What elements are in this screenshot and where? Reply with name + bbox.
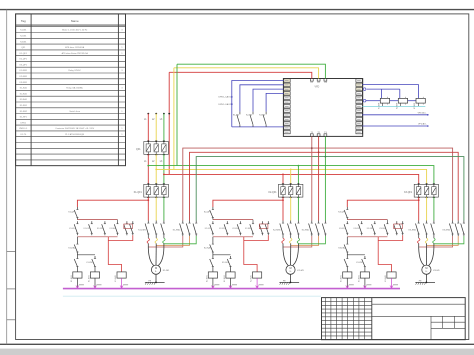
contact K2-SA1 xyxy=(212,254,214,256)
VFD output wire T2 xyxy=(318,136,320,220)
svg-text:K3-KD2: K3-KD2 xyxy=(354,228,361,230)
motor K3-M1 ground PE xyxy=(425,274,427,282)
svg-text:K3-QF1: K3-QF1 xyxy=(404,192,413,194)
svg-text:DRV1-CAO1: DRV1-CAO1 xyxy=(219,96,232,99)
contact K1-SA1 xyxy=(76,254,78,256)
coil terminal labels xyxy=(349,284,354,286)
red wire pushbutton drop xyxy=(378,235,403,240)
wire VFD DO1 blue xyxy=(362,85,418,99)
contactor K3-KM2 contacts xyxy=(452,221,454,224)
svg-text:K1-SB1: K1-SB1 xyxy=(109,228,116,230)
wire L3 top bus green xyxy=(177,64,325,78)
svg-text:K2-QF1: K2-QF1 xyxy=(268,192,277,194)
svg-text:M: M xyxy=(155,267,157,270)
pushbutton K3-SB2 xyxy=(396,221,398,224)
svg-text:K1-KD2: K1-KD2 xyxy=(84,228,91,230)
VFD output bus W2 red xyxy=(190,152,459,220)
overload relay K3-KK1 xyxy=(418,236,420,238)
motor K1-M1 xyxy=(151,265,160,274)
supply wire L2 xyxy=(155,114,157,142)
coil K3-KA1 xyxy=(387,272,396,278)
svg-text:K1-KA1: K1-KA1 xyxy=(20,87,28,90)
branch 2 feeder drops from buses xyxy=(282,174,284,184)
QF1 output wire L2 xyxy=(155,154,157,184)
svg-text:K2-KM2: K2-KM2 xyxy=(302,229,310,231)
svg-text:K3-QF1: K3-QF1 xyxy=(338,212,346,214)
contact K2-M2 xyxy=(252,112,254,115)
pin negation circles xyxy=(363,88,366,91)
sheet bottom shadow strip xyxy=(0,349,474,355)
control feed wire branch 3 xyxy=(347,200,418,207)
contactor K1-KM2 contacts xyxy=(182,221,184,224)
relay K2-MF xyxy=(398,98,407,103)
relay K1-MF xyxy=(380,98,389,103)
selector contact K1-KA1 xyxy=(76,237,78,242)
VFD output wire T3 xyxy=(324,136,326,220)
svg-text:K1-QF1: K1-QF1 xyxy=(20,53,28,55)
distribution bus L3 green xyxy=(148,166,434,185)
contact K3-SA1 xyxy=(346,254,348,256)
svg-text:K1-KM2: K1-KM2 xyxy=(173,229,181,231)
VFD output bus W1 dark red xyxy=(183,148,453,220)
wire VFD DI common blue xyxy=(232,81,284,127)
contactor K2-KM2 contacts xyxy=(311,221,313,224)
wire VFD AO- blue xyxy=(362,125,428,127)
junction dots T wires to side buses xyxy=(311,147,313,149)
motor K2-M1 ground PE xyxy=(290,274,292,282)
QF1 output wire L1 xyxy=(147,154,149,184)
coil branch wire xyxy=(347,254,365,256)
svg-text:Relay GA 220VAC: Relay GA 220VAC xyxy=(66,87,83,90)
svg-text:VFD AO+: VFD AO+ xyxy=(418,111,428,114)
aux contact K3-QF1 xyxy=(346,207,348,210)
VFD left pin terminals xyxy=(284,79,290,134)
svg-text:Switch fuse: Switch fuse xyxy=(69,110,80,113)
control feed wire branch 2 xyxy=(213,200,283,207)
svg-text:QF1: QF1 xyxy=(136,149,141,151)
VFD bottom pins T1 T2 T3 xyxy=(310,134,326,137)
svg-text:K3-KM1: K3-KM1 xyxy=(409,229,417,231)
svg-text:DRV1: DRV1 xyxy=(21,122,27,124)
breaker K2-QF1 output wires xyxy=(282,197,284,220)
contactor K3-KM1 contacts xyxy=(418,221,420,224)
coil branch wire xyxy=(213,254,231,256)
ladder rails branch 3 xyxy=(347,219,387,221)
svg-text:U1-T0: U1-T0 xyxy=(20,134,27,136)
svg-text:K2-M1: K2-M1 xyxy=(297,270,304,272)
contactor K2-KM1 contacts xyxy=(282,221,284,224)
svg-text:K1-KM1: K1-KM1 xyxy=(138,229,146,231)
svg-text:K2-KD1: K2-KD1 xyxy=(205,228,212,230)
motor feed funnel branch 2 xyxy=(282,243,284,248)
VFD output wire T1 xyxy=(311,136,313,220)
svg-text:K3-M1: K3-M1 xyxy=(433,270,440,272)
selector contact K2-KA1 xyxy=(212,237,214,242)
svg-text:K2-M2: K2-M2 xyxy=(246,114,253,116)
svg-text:K1-KD1: K1-KD1 xyxy=(69,228,76,230)
svg-text:Relay 24VDC: Relay 24VDC xyxy=(68,70,81,72)
svg-text:K3-KB1: K3-KB1 xyxy=(367,228,374,230)
aux contact K2-KM1 ladder xyxy=(230,256,232,259)
control feed tap node branch 2 xyxy=(282,199,284,201)
svg-text:K1-M1: K1-M1 xyxy=(163,270,170,272)
svg-text:K1-KM1: K1-KM1 xyxy=(71,275,73,282)
branch breaker K2-QF1 xyxy=(279,184,303,197)
motor K2-M1 xyxy=(286,265,295,274)
relay chain wire blue xyxy=(366,100,380,102)
branch breaker K1-QF1 xyxy=(144,184,169,197)
supply wire L3 xyxy=(163,114,165,142)
svg-text:K1-QF1: K1-QF1 xyxy=(68,212,76,214)
coil K1-KM1 xyxy=(76,269,78,272)
aux contact K3-KM1 ladder xyxy=(364,256,366,259)
ladder rails branch 2 xyxy=(213,219,253,221)
svg-text:K1-KA1: K1-KA1 xyxy=(114,275,117,282)
wire L2 top bus yellow xyxy=(174,68,319,79)
supply wire L1 xyxy=(147,114,149,142)
coil K3-KM2 xyxy=(364,269,366,272)
svg-text:K3-KM1: K3-KM1 xyxy=(356,262,363,264)
svg-text:K2-QF1: K2-QF1 xyxy=(204,212,212,214)
svg-text:K3-M2: K3-M2 xyxy=(259,114,266,116)
left margin attachment boxes xyxy=(7,251,16,253)
overload relay K2-KK1 xyxy=(282,236,284,238)
svg-text:K3-KM1: K3-KM1 xyxy=(341,275,343,282)
control feed tap node branch 1 xyxy=(147,199,149,201)
control feed tap node branch 3 xyxy=(418,199,420,201)
wire VFD DO2 blue xyxy=(367,88,400,90)
pushbutton K1-SB2 xyxy=(126,221,128,224)
svg-text:Name: Name xyxy=(71,19,79,23)
coil terminal labels xyxy=(214,284,219,286)
motor K1-M1 ground PE xyxy=(155,274,157,282)
relay K3-MF xyxy=(416,98,425,103)
wire VFD DI1 blue xyxy=(240,85,284,112)
red wire to coil 3 xyxy=(244,237,257,272)
wire DI return rail blue xyxy=(232,126,284,128)
supply terminal dots L1 L2 L3 xyxy=(147,113,149,115)
bus junction dots at QF1 feeder xyxy=(147,165,149,167)
motor feed funnel branch 3 xyxy=(418,243,420,248)
red wire pushbutton drop xyxy=(244,235,268,240)
svg-text:K1-SB2: K1-SB2 xyxy=(20,111,28,113)
svg-text:K1-KM2: K1-KM2 xyxy=(88,275,90,282)
table row entries xyxy=(19,29,123,136)
aux contact K1-KM1 ladder xyxy=(94,256,96,259)
title block xyxy=(322,298,466,340)
wire L1 riser red xyxy=(168,72,170,174)
ladder rails branch 1 xyxy=(77,219,117,221)
VFD drive block U1 xyxy=(283,79,362,137)
wire VFD DI3 blue xyxy=(266,93,284,111)
svg-text:VFD: VFD xyxy=(315,86,320,89)
svg-text:K3-KM2: K3-KM2 xyxy=(443,229,451,231)
svg-text:K1-SF1: K1-SF1 xyxy=(20,117,28,119)
breaker K1-QF1 output wires xyxy=(147,197,149,220)
sheet top edge line xyxy=(0,9,474,11)
svg-text:DRV1-CAO2: DRV1-CAO2 xyxy=(219,103,232,106)
coil K2-KM1 xyxy=(212,269,214,272)
svg-text:Motor 1.1 kW, 400 V, 50 Hz: Motor 1.1 kW, 400 V, 50 Hz xyxy=(62,29,87,32)
svg-text:K1-KM1: K1-KM1 xyxy=(86,262,93,264)
svg-text:K3-QF1: K3-QF1 xyxy=(20,64,28,66)
relay common return cyan xyxy=(362,105,425,107)
coil K3-KM1 xyxy=(346,269,348,272)
svg-text:K3-SB1: K3-SB1 xyxy=(379,228,386,230)
wire L1 top bus red xyxy=(169,72,312,78)
svg-text:K2-KA1: K2-KA1 xyxy=(20,92,28,95)
svg-text:K1-M2: K1-M2 xyxy=(233,114,240,116)
sheet bottom edge line xyxy=(0,343,474,345)
VFD right pin terminals xyxy=(356,79,362,134)
selector contact K3-KA1 xyxy=(346,237,348,242)
svg-text:K3-MF: K3-MF xyxy=(414,102,416,109)
svg-text:K3-KA1: K3-KA1 xyxy=(20,98,28,101)
svg-text:Contactor 3-HP/600V 7A 24-HP +: Contactor 3-HP/600V 7A 24-HP +UL 120V xyxy=(55,127,95,130)
svg-text:K2-KM1: K2-KM1 xyxy=(206,275,208,282)
aux contact K1-QF1 xyxy=(76,207,78,210)
svg-text:K2-KA1: K2-KA1 xyxy=(204,247,212,250)
KM2 to motor join wires xyxy=(419,236,453,247)
control bus 0V cyan xyxy=(63,295,321,297)
coil terminal labels xyxy=(79,284,84,286)
VFD top pins U1 U2 U3 xyxy=(310,79,326,82)
distribution bus L1 red xyxy=(164,174,419,184)
aux contact K2-QF1 xyxy=(212,207,214,210)
svg-text:ATS drive Eaton PN2/N1-5A: ATS drive Eaton PN2/N1-5A xyxy=(62,52,89,55)
svg-text:M: M xyxy=(425,267,427,270)
coil K2-KA1 xyxy=(253,272,262,278)
motor feed funnel branch 1 xyxy=(147,243,149,248)
svg-text:K1-KM1: K1-KM1 xyxy=(20,70,28,72)
wire VFD AO+ blue xyxy=(362,114,428,116)
svg-text:K2-QF1: K2-QF1 xyxy=(20,59,28,61)
svg-text:K2-KM2: K2-KM2 xyxy=(224,275,226,282)
svg-text:K2-KM1: K2-KM1 xyxy=(20,76,28,78)
svg-text:VFD AO-: VFD AO- xyxy=(418,123,427,126)
KM2 to motor join wires xyxy=(148,236,183,247)
svg-text:K2-KA1: K2-KA1 xyxy=(250,275,253,282)
svg-text:K3-M1: K3-M1 xyxy=(20,41,27,43)
parallel contacts branch 2 xyxy=(212,221,214,224)
control bus 24V magenta xyxy=(63,288,400,290)
coil K1-KA1 xyxy=(117,272,126,278)
coil returns to control bus xyxy=(212,278,214,289)
svg-text:K3-KD1: K3-KD1 xyxy=(339,228,346,230)
svg-text:K1-MF: K1-MF xyxy=(379,102,381,109)
svg-text:K2-M1: K2-M1 xyxy=(20,36,27,38)
svg-text:K1-KA1: K1-KA1 xyxy=(68,247,76,250)
svg-text:K2-KM1: K2-KM1 xyxy=(222,262,229,264)
coil returns to control bus xyxy=(76,278,78,289)
coil branch wire xyxy=(77,254,95,256)
overload relay K1-KK1 xyxy=(147,236,149,238)
svg-text:K3-KA1: K3-KA1 xyxy=(338,247,346,250)
red wire to coil 3 xyxy=(378,237,391,272)
contactor K1-KM1 contacts xyxy=(147,221,149,224)
svg-text:K3-KM1: K3-KM1 xyxy=(20,82,28,84)
QF1 output wire L3 xyxy=(163,154,165,184)
svg-text:XMR-1-1: XMR-1-1 xyxy=(19,128,28,130)
svg-text:K1-KB1: K1-KB1 xyxy=(97,228,104,230)
distribution bus L2 yellow xyxy=(156,169,426,184)
red wire pushbutton drop xyxy=(108,235,133,240)
svg-text:ATS drive CKD401A: ATS drive CKD401A xyxy=(65,46,84,49)
svg-text:Tag: Tag xyxy=(21,19,26,23)
contact K1-M2 xyxy=(239,112,241,115)
parallel contacts branch 1 xyxy=(76,221,78,224)
svg-text:K1-QF1: K1-QF1 xyxy=(134,192,143,194)
sheet left edge line xyxy=(6,10,8,345)
breaker K3-QF1 output wires xyxy=(418,197,420,220)
pushbutton K2-SB2 xyxy=(261,221,263,224)
svg-text:K2-KM1: K2-KM1 xyxy=(273,229,281,231)
svg-text:K2-KD2: K2-KD2 xyxy=(219,228,226,230)
component table grid xyxy=(16,14,126,166)
svg-text:K1-M1: K1-M1 xyxy=(20,30,27,32)
coil K1-KM2 xyxy=(94,269,96,272)
coil returns to control bus xyxy=(346,278,348,289)
wire VFD DI2 blue xyxy=(253,89,284,112)
wire L2 riser yellow xyxy=(173,68,175,170)
contact K3-M2 xyxy=(265,112,267,115)
svg-text:K3-KM2: K3-KM2 xyxy=(358,275,360,282)
svg-text:K2-KB1: K2-KB1 xyxy=(232,228,239,230)
red wire to coil 3 xyxy=(108,237,121,272)
svg-text:PLC ATS01N206QN: PLC ATS01N206QN xyxy=(65,133,84,136)
KM2 to motor join wires xyxy=(283,236,312,247)
svg-text:K1-SB1: K1-SB1 xyxy=(20,105,28,107)
coil K2-KM2 xyxy=(230,269,232,272)
svg-text:K2-MF: K2-MF xyxy=(397,102,399,109)
branch breaker K3-QF1 xyxy=(414,184,438,197)
svg-text:K3-KA1: K3-KA1 xyxy=(384,275,387,282)
VFD output bus W3 dark green xyxy=(196,157,464,221)
control feed wire branch 1 xyxy=(77,200,148,207)
main breaker QF1 xyxy=(144,142,169,155)
svg-text:M: M xyxy=(289,267,291,270)
svg-text:K2-SB1: K2-SB1 xyxy=(245,228,252,230)
wire L3 riser green xyxy=(176,64,178,165)
motor K3-M1 xyxy=(422,265,431,274)
parallel contacts branch 3 xyxy=(346,221,348,224)
